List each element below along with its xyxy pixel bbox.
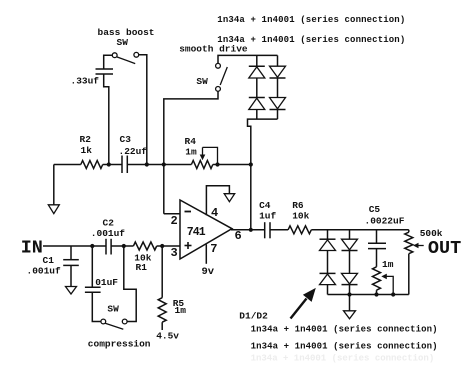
wire D2 mid: [349, 251, 351, 274]
wire R1 to pin3: [157, 245, 180, 247]
switch SW2 smooth drive: [216, 63, 228, 91]
node C5 bottom junction: [374, 292, 378, 296]
diode D5 (down): [270, 66, 286, 78]
label C4 value 1uf: [259, 211, 276, 222]
diode D1b (up): [320, 273, 336, 284]
svg-text:1n34a + 1n4001 (series connect: 1n34a + 1n4001 (series connection): [251, 354, 435, 364]
wire R6 to 500k: [311, 229, 409, 231]
wire diode col A bottom: [256, 110, 258, 120]
capacitor C1: [63, 260, 79, 266]
svg-text:1n34a + 1n4001 (series connect: 1n34a + 1n4001 (series connection): [251, 342, 438, 352]
svg-text:R4: R4: [185, 136, 197, 147]
wire C5 drop: [376, 230, 378, 243]
capacitor C5: [368, 243, 386, 248]
label C2 value .001uf: [91, 228, 126, 239]
label R4: [185, 136, 197, 147]
svg-text:741: 741: [187, 226, 206, 239]
svg-text:OUT: OUT: [428, 238, 461, 259]
svg-text:1m: 1m: [175, 305, 187, 316]
label R6: [292, 200, 304, 211]
label pin 2: [171, 214, 178, 228]
node .33uf junction: [107, 162, 111, 166]
node ground junction: [347, 292, 351, 296]
node feedback output junction: [249, 228, 253, 232]
svg-text:.0022uF: .0022uF: [365, 216, 405, 227]
label bass boost SW: [117, 37, 129, 48]
wire 1m wiper: [381, 274, 393, 295]
label R1 value 10k: [134, 253, 151, 264]
svg-text:C2: C2: [103, 217, 115, 228]
resistor R2: [81, 161, 103, 169]
label .01uF: [90, 277, 119, 288]
wire D2 top stub: [349, 230, 351, 239]
label top note line 1: [217, 15, 405, 25]
wire D1 bottom: [327, 285, 329, 295]
op-amp plus sign: [185, 242, 192, 249]
wire .33uf bottom to R2 node: [104, 74, 109, 165]
svg-text:4: 4: [211, 206, 218, 220]
wire C4 to R6: [270, 229, 288, 231]
label R2 value 1k: [81, 145, 93, 156]
wire R4 to feedback column: [213, 164, 251, 166]
label C4: [259, 200, 271, 211]
svg-text:4.5v: 4.5v: [156, 331, 179, 342]
wire ground stub: [349, 295, 351, 311]
diode D3 (up): [249, 66, 265, 78]
capacitor .01uF: [85, 287, 101, 292]
capacitor C2: [106, 239, 111, 255]
label R1: [136, 262, 148, 273]
label D1/D2: [239, 311, 268, 322]
switch SW1 bass boost: [112, 52, 138, 63]
svg-text:6: 6: [235, 229, 242, 243]
label 1m pot: [382, 259, 394, 270]
svg-text:1uf: 1uf: [259, 211, 276, 222]
svg-text:D1/D2: D1/D2: [239, 311, 268, 322]
switch SW3 compression: [101, 319, 127, 329]
wiper 500k OUT arrow: [413, 243, 424, 249]
svg-text:3: 3: [171, 246, 178, 260]
wire 1m to rail: [376, 290, 378, 294]
label IN: [21, 238, 43, 259]
label R6 value 10k: [292, 211, 309, 222]
wire D1 mid: [327, 251, 329, 274]
resistor R4: [191, 161, 212, 169]
svg-text:1n34a + 1n4001 (series connect: 1n34a + 1n4001 (series connection): [251, 325, 438, 335]
label compression SW: [107, 303, 119, 314]
label C5: [369, 204, 381, 215]
arrow to diodes: [291, 288, 316, 319]
wire row left ground drop: [53, 165, 55, 205]
label pin 3: [171, 246, 178, 260]
node compression junction: [90, 244, 94, 248]
ground G3: [224, 194, 235, 202]
wire .33uf top to switch: [104, 55, 113, 68]
wire R5 drop: [161, 246, 163, 298]
wire diode col B top: [277, 55, 279, 66]
svg-text:1n34a + 1n4001 (series connect: 1n34a + 1n4001 (series connection): [217, 15, 405, 25]
svg-text:.001uf: .001uf: [27, 265, 62, 276]
wire R5 stub: [161, 322, 163, 330]
label pin 4: [211, 206, 218, 220]
wire 500k top: [408, 230, 410, 232]
op-amp U1 741: [180, 200, 232, 259]
svg-text:C1: C1: [43, 255, 55, 266]
svg-text:smooth drive: smooth drive: [179, 43, 248, 54]
svg-text:R2: R2: [80, 134, 92, 145]
svg-text:.01uF: .01uF: [90, 277, 119, 288]
ground G2: [66, 287, 77, 295]
wire smooth bottom to pin2 column: [164, 91, 218, 213]
wire C3 to R4: [127, 164, 191, 166]
label C2: [103, 217, 115, 228]
node R4 wiper junction: [215, 162, 219, 166]
svg-text:SW: SW: [117, 37, 129, 48]
svg-text:SW: SW: [107, 303, 119, 314]
diode D2b (down): [342, 273, 358, 284]
wire input row b: [111, 245, 133, 247]
wire row left: [54, 164, 81, 166]
svg-text:compression: compression: [88, 339, 151, 350]
wire pin2: [164, 213, 180, 215]
wire pin6 out: [231, 229, 265, 231]
svg-text:1k: 1k: [81, 145, 93, 156]
wire C1 drop: [70, 246, 72, 259]
potentiometer 500k: [405, 232, 413, 254]
label bottom note line 2: [251, 342, 438, 352]
wire C5 to 1m pot: [376, 249, 378, 267]
label pin 7: [210, 242, 217, 256]
label compression: [88, 339, 151, 350]
wire diode col A top stub: [256, 55, 258, 66]
svg-text:9v: 9v: [202, 266, 215, 278]
svg-text:C5: C5: [369, 204, 381, 215]
node bass switch junction: [145, 162, 149, 166]
resistor R1: [133, 242, 156, 250]
label C5 value .0022uF: [365, 216, 405, 227]
wire compression drop: [91, 246, 93, 287]
wire pin4: [206, 186, 229, 216]
svg-text:1m: 1m: [382, 259, 394, 270]
ghost text artifact: [251, 354, 435, 364]
svg-text:7: 7: [210, 242, 217, 256]
wire switch return: [124, 246, 136, 322]
node 1m wiper junction: [391, 292, 395, 296]
svg-text:.001uf: .001uf: [91, 228, 126, 239]
diode D6 (down): [270, 98, 286, 110]
label top note line 2: [217, 35, 405, 45]
label smooth drive: [179, 43, 248, 54]
label pin 6: [235, 229, 242, 243]
label smooth drive SW: [196, 76, 208, 87]
wire D2 bottom: [349, 285, 351, 295]
wire pin7: [205, 244, 207, 263]
label OUT: [428, 238, 461, 259]
svg-text:10k: 10k: [292, 211, 309, 222]
resistor R6: [288, 226, 311, 234]
diode D4 (up): [249, 98, 265, 110]
wire diode col B bottom: [277, 110, 279, 120]
capacitor .33uf: [96, 69, 114, 74]
wire diode col B mid: [277, 78, 279, 98]
wire C1 to ground: [70, 265, 72, 286]
label 741: [187, 226, 206, 239]
label 4.5v: [156, 331, 179, 342]
svg-text:R6: R6: [292, 200, 304, 211]
svg-text:.22uf: .22uf: [119, 146, 148, 157]
trimmer R4 wiper: [200, 147, 218, 164]
svg-text:C4: C4: [259, 200, 271, 211]
ground G1: [48, 205, 59, 214]
wire diode bridge bottom to feedback column: [248, 119, 278, 230]
wire input row a: [43, 245, 106, 247]
label C1 value .001uf: [27, 265, 62, 276]
label bottom note line 1: [251, 325, 438, 335]
svg-text:C3: C3: [120, 134, 132, 145]
node compression return junction: [122, 244, 126, 248]
capacitor C4: [265, 222, 270, 238]
label 9v: [202, 266, 215, 278]
capacitor C3: [122, 156, 127, 174]
wire D1 top stub: [327, 230, 329, 239]
label R5 value 1m: [175, 305, 187, 316]
ground G4: [344, 311, 356, 319]
node pin2 junction: [162, 162, 166, 166]
svg-text:SW: SW: [196, 76, 208, 87]
wire output bottom rail: [328, 294, 409, 296]
capacitor .33uf value: [71, 75, 100, 86]
svg-text:1m: 1m: [185, 147, 197, 158]
label 500k: [420, 228, 443, 239]
label R4 value 1m: [185, 147, 197, 158]
label C3 value .22uf: [119, 146, 148, 157]
label C1: [43, 255, 55, 266]
wire R2 to C3: [103, 164, 122, 166]
potentiometer 1m: [373, 267, 381, 290]
label bass boost: [98, 27, 155, 38]
node R5 junction: [160, 244, 164, 248]
wire cap to switch: [92, 292, 101, 321]
svg-text:.33uf: .33uf: [71, 75, 100, 86]
label R2: [80, 134, 92, 145]
node feedback column row junction: [249, 162, 253, 166]
wire diode col A mid: [256, 78, 258, 98]
wire switch to C3 node: [139, 55, 147, 165]
svg-text:IN: IN: [21, 238, 43, 259]
svg-text:R1: R1: [136, 262, 148, 273]
label R5: [173, 298, 185, 309]
svg-text:2: 2: [171, 214, 178, 228]
label C3: [120, 134, 132, 145]
resistor R5: [158, 298, 166, 323]
wire smooth top: [218, 55, 278, 63]
op-amp minus sign: [185, 211, 192, 213]
diode D2a (down): [342, 239, 358, 250]
wire 500k bottom: [408, 254, 410, 295]
diode D1a (up): [320, 239, 336, 250]
